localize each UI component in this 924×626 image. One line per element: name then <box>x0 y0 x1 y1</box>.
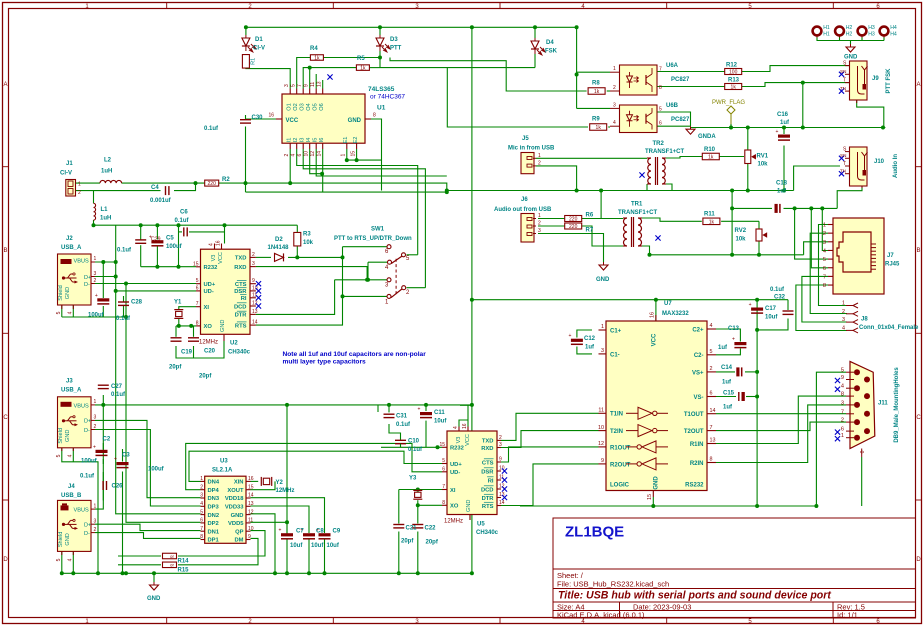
svg-text:0.001uf: 0.001uf <box>150 198 172 204</box>
svg-text:1k: 1k <box>314 56 320 62</box>
svg-text:XOUT: XOUT <box>227 488 244 494</box>
svg-text:1: 1 <box>200 476 203 482</box>
svg-text:3: 3 <box>841 400 844 406</box>
svg-text:CH340c: CH340c <box>476 530 499 536</box>
svg-text:1: 1 <box>823 223 826 229</box>
svg-text:3: 3 <box>94 519 97 525</box>
svg-text:DP4: DP4 <box>208 488 220 494</box>
svg-text:0.1uf: 0.1uf <box>396 422 411 428</box>
svg-text:J10: J10 <box>874 159 885 165</box>
svg-text:12: 12 <box>248 509 254 515</box>
svg-text:+: + <box>114 457 117 463</box>
svg-text:T: T <box>843 161 846 167</box>
svg-text:0.1uf: 0.1uf <box>175 218 190 224</box>
svg-text:T1IN: T1IN <box>610 412 623 418</box>
svg-text:R14: R14 <box>178 559 190 565</box>
svg-text:1: 1 <box>94 256 97 262</box>
svg-text:D+: D+ <box>84 275 91 281</box>
svg-text:U5: U5 <box>477 522 485 528</box>
svg-text:+: + <box>568 333 571 339</box>
svg-text:DP3: DP3 <box>208 505 220 511</box>
svg-text:+: + <box>279 528 282 534</box>
svg-text:XO: XO <box>450 504 459 510</box>
svg-text:16: 16 <box>268 113 274 119</box>
svg-text:3: 3 <box>538 228 541 234</box>
svg-text:VCC: VCC <box>218 252 224 264</box>
svg-text:3: 3 <box>284 84 290 87</box>
svg-text:C12: C12 <box>584 336 596 342</box>
svg-text:J8: J8 <box>861 317 868 323</box>
svg-text:C27: C27 <box>111 384 123 390</box>
svg-text:R8: R8 <box>592 81 600 87</box>
svg-text:GND: GND <box>231 513 244 519</box>
svg-text:5: 5 <box>841 368 844 374</box>
svg-text:8: 8 <box>659 85 662 91</box>
svg-text:1k: 1k <box>360 66 366 72</box>
svg-text:100uf: 100uf <box>166 244 183 250</box>
svg-text:20pf: 20pf <box>199 374 212 380</box>
svg-text:C20: C20 <box>204 349 216 355</box>
svg-text:3: 3 <box>252 261 255 267</box>
svg-text:DN1: DN1 <box>208 529 220 535</box>
svg-text:12: 12 <box>252 301 258 307</box>
svg-text:8: 8 <box>200 534 203 540</box>
svg-text:10: 10 <box>252 285 258 291</box>
svg-text:10: 10 <box>248 526 254 532</box>
svg-text:DB9_Male_MountingHoles: DB9_Male_MountingHoles <box>894 367 900 443</box>
svg-text:16: 16 <box>650 312 656 318</box>
svg-text:DN3: DN3 <box>208 496 220 502</box>
svg-text:C: C <box>3 415 8 421</box>
svg-text:DTR: DTR <box>482 496 495 502</box>
svg-text:1k: 1k <box>709 219 715 225</box>
svg-text:8: 8 <box>373 113 376 119</box>
svg-text:VBUS: VBUS <box>74 259 90 265</box>
svg-text:USB_B: USB_B <box>61 493 82 499</box>
svg-text:Y2: Y2 <box>276 480 284 486</box>
svg-text:1k: 1k <box>708 155 714 161</box>
svg-text:13: 13 <box>710 438 716 444</box>
svg-text:I6: I6 <box>319 138 325 143</box>
svg-text:0.1uf: 0.1uf <box>116 316 131 322</box>
svg-text:5: 5 <box>56 558 62 561</box>
svg-text:8: 8 <box>442 500 445 506</box>
svg-text:14: 14 <box>499 500 505 506</box>
svg-text:MAX3232: MAX3232 <box>662 311 689 317</box>
svg-text:H2: H2 <box>846 25 853 31</box>
svg-text:DCD: DCD <box>481 487 494 493</box>
svg-text:C3: C3 <box>122 453 130 459</box>
svg-text:DN2: DN2 <box>208 513 220 519</box>
svg-text:14: 14 <box>317 151 323 157</box>
svg-text:DN4: DN4 <box>208 480 220 486</box>
svg-text:R232: R232 <box>204 265 218 271</box>
svg-text:GND: GND <box>348 118 362 124</box>
svg-text:U7: U7 <box>664 301 672 307</box>
svg-text:Id: 1/1: Id: 1/1 <box>837 610 858 619</box>
svg-text:U2: U2 <box>230 341 238 347</box>
svg-text:RV2: RV2 <box>735 228 747 234</box>
svg-text:10: 10 <box>304 151 310 157</box>
svg-text:1k: 1k <box>594 89 600 95</box>
svg-text:R2IN: R2IN <box>690 461 704 467</box>
svg-text:1k: 1k <box>731 85 737 91</box>
svg-text:GND: GND <box>65 533 71 545</box>
svg-text:6: 6 <box>659 121 662 127</box>
svg-text:15: 15 <box>439 442 445 448</box>
svg-text:9: 9 <box>248 534 251 540</box>
svg-text:VBUS: VBUS <box>74 403 90 409</box>
svg-text:USB_A: USB_A <box>61 245 82 251</box>
svg-text:1uH: 1uH <box>100 216 111 222</box>
svg-text:RV1: RV1 <box>757 154 769 160</box>
svg-text:Title: USB hub with serial por: Title: USB hub with serial ports and sou… <box>558 590 831 602</box>
svg-text:1: 1 <box>94 503 97 509</box>
svg-text:11: 11 <box>598 408 604 414</box>
svg-text:O1: O1 <box>286 103 292 110</box>
svg-text:10k: 10k <box>758 162 769 168</box>
svg-text:Y3: Y3 <box>409 476 417 482</box>
svg-text:+: + <box>749 302 752 308</box>
svg-text:RXD: RXD <box>481 446 493 452</box>
svg-text:J9: J9 <box>872 76 879 82</box>
svg-text:R10: R10 <box>704 147 716 153</box>
svg-text:1: 1 <box>842 301 845 307</box>
svg-text:5: 5 <box>823 257 826 263</box>
svg-text:Mic in from USB: Mic in from USB <box>508 146 555 152</box>
svg-text:D1: D1 <box>255 37 263 43</box>
svg-text:R1IN: R1IN <box>690 442 704 448</box>
svg-text:A: A <box>916 82 920 88</box>
svg-text:5: 5 <box>56 454 62 457</box>
svg-text:0: 0 <box>860 450 866 453</box>
svg-text:C2+: C2+ <box>692 327 704 333</box>
svg-text:C14: C14 <box>721 365 733 371</box>
svg-text:VDD18: VDD18 <box>225 496 244 502</box>
svg-text:H3: H3 <box>868 25 875 31</box>
svg-text:FSK: FSK <box>545 49 558 55</box>
svg-text:O3: O3 <box>299 103 305 110</box>
svg-text:7: 7 <box>196 301 199 307</box>
svg-text:1: 1 <box>94 399 97 405</box>
svg-text:VBUS: VBUS <box>74 508 90 514</box>
svg-text:6: 6 <box>200 518 203 524</box>
svg-text:3: 3 <box>94 415 97 421</box>
svg-text:C31: C31 <box>396 414 408 420</box>
svg-text:5: 5 <box>442 458 445 464</box>
svg-text:5: 5 <box>56 311 62 314</box>
svg-text:R7: R7 <box>586 228 594 234</box>
svg-text:4: 4 <box>291 154 297 157</box>
svg-text:or 74HC367: or 74HC367 <box>370 94 405 101</box>
svg-text:7: 7 <box>297 84 303 87</box>
svg-text:D+: D+ <box>84 419 91 425</box>
svg-text:D+: D+ <box>84 523 91 529</box>
svg-text:16: 16 <box>215 240 221 246</box>
svg-text:V3: V3 <box>211 255 217 262</box>
svg-text:1uf: 1uf <box>585 345 595 351</box>
svg-text:I2: I2 <box>293 138 299 143</box>
svg-text:R11: R11 <box>704 212 715 218</box>
svg-text:20pf: 20pf <box>169 365 182 371</box>
svg-text:PTT FSK: PTT FSK <box>886 68 892 94</box>
svg-text:T2IN: T2IN <box>610 429 623 435</box>
svg-text:GND: GND <box>220 320 226 332</box>
svg-text:10uf: 10uf <box>327 543 340 549</box>
svg-text:GND: GND <box>654 476 660 490</box>
svg-text:R5: R5 <box>357 56 365 62</box>
svg-text:TN: TN <box>840 86 846 91</box>
svg-text:CH340c: CH340c <box>228 350 251 356</box>
svg-text:9: 9 <box>304 84 310 87</box>
svg-text:8: 8 <box>710 457 713 463</box>
svg-text:TRANSF1+CT: TRANSF1+CT <box>618 210 658 216</box>
svg-text:VDD33: VDD33 <box>225 505 244 511</box>
svg-text:C29: C29 <box>151 237 161 243</box>
svg-text:H4: H4 <box>890 32 897 38</box>
svg-text:DP1: DP1 <box>208 538 220 544</box>
svg-text:T1OUT: T1OUT <box>684 412 704 418</box>
svg-text:J7: J7 <box>887 253 894 259</box>
svg-text:R3: R3 <box>303 232 311 238</box>
svg-text:Shield: Shield <box>58 428 64 444</box>
svg-text:D4: D4 <box>546 40 554 46</box>
svg-text:2: 2 <box>252 252 255 258</box>
svg-text:RI: RI <box>241 296 247 302</box>
svg-text:4: 4 <box>200 501 203 507</box>
svg-text:Audio In: Audio In <box>893 154 899 178</box>
svg-text:B: B <box>3 248 7 254</box>
svg-text:2: 2 <box>94 424 97 430</box>
svg-text:RTS: RTS <box>235 323 247 329</box>
svg-text:10uf: 10uf <box>290 543 303 549</box>
svg-text:D-: D- <box>84 282 90 288</box>
svg-text:1: 1 <box>538 213 541 219</box>
svg-text:E1: E1 <box>343 137 349 144</box>
svg-text:UD-: UD- <box>204 289 214 295</box>
svg-text:1: 1 <box>613 66 616 72</box>
svg-text:L1: L1 <box>101 207 109 213</box>
svg-text:13: 13 <box>317 81 323 87</box>
svg-text:2: 2 <box>284 154 290 157</box>
svg-text:4: 4 <box>453 426 459 429</box>
svg-text:XIN: XIN <box>234 480 244 486</box>
svg-text:DM: DM <box>234 538 243 544</box>
svg-text:R1OUT: R1OUT <box>610 445 631 451</box>
svg-text:9: 9 <box>252 278 255 284</box>
svg-text:CI-V: CI-V <box>253 46 265 52</box>
svg-text:ZL1BQE: ZL1BQE <box>565 524 624 541</box>
svg-text:GND: GND <box>466 500 472 512</box>
svg-text:7: 7 <box>442 484 445 490</box>
svg-text:R12: R12 <box>726 63 738 69</box>
svg-text:1: 1 <box>341 154 347 157</box>
svg-text:13: 13 <box>248 501 254 507</box>
svg-text:C7: C7 <box>296 529 304 535</box>
svg-text:0.1uf: 0.1uf <box>111 392 126 398</box>
svg-text:1uH: 1uH <box>101 169 112 175</box>
svg-text:D: D <box>3 557 8 563</box>
svg-text:16: 16 <box>248 476 254 482</box>
svg-text:DSR: DSR <box>481 469 494 475</box>
svg-text:5: 5 <box>710 349 713 355</box>
svg-text:9: 9 <box>841 375 844 381</box>
svg-text:1uf: 1uf <box>780 120 790 126</box>
svg-text:T2OUT: T2OUT <box>684 429 704 435</box>
svg-text:R232: R232 <box>450 446 464 452</box>
svg-text:Shield: Shield <box>58 285 64 301</box>
svg-text:DCD: DCD <box>234 304 247 310</box>
svg-text:12MHz: 12MHz <box>199 340 218 346</box>
svg-text:UD-: UD- <box>450 470 460 476</box>
svg-text:5: 5 <box>196 278 199 284</box>
svg-text:Audio out from USB: Audio out from USB <box>494 207 552 213</box>
svg-text:XO: XO <box>204 324 213 330</box>
svg-text:2: 2 <box>842 309 845 315</box>
svg-text:VS-: VS- <box>693 395 703 401</box>
svg-text:10uf: 10uf <box>765 315 778 321</box>
svg-text:J1: J1 <box>66 161 73 167</box>
svg-text:USB_A: USB_A <box>61 388 82 394</box>
svg-text:C1-: C1- <box>610 352 620 358</box>
svg-text:9: 9 <box>601 458 604 464</box>
svg-text:U6A: U6A <box>666 63 679 69</box>
svg-text:1N4148: 1N4148 <box>268 245 290 251</box>
svg-text:7: 7 <box>710 425 713 431</box>
svg-text:10k: 10k <box>303 240 314 246</box>
svg-text:2: 2 <box>94 278 97 284</box>
svg-text:T: T <box>843 78 846 84</box>
svg-text:O2: O2 <box>293 103 299 110</box>
svg-text:15: 15 <box>248 484 254 490</box>
svg-text:6: 6 <box>841 427 844 433</box>
svg-text:1: 1 <box>841 433 844 439</box>
svg-text:4: 4 <box>208 243 214 246</box>
svg-text:74LS365: 74LS365 <box>368 86 395 93</box>
svg-text:6: 6 <box>442 466 445 472</box>
svg-text:XI: XI <box>204 305 210 311</box>
svg-text:SW1: SW1 <box>371 227 385 233</box>
svg-text:C22: C22 <box>425 526 437 532</box>
svg-text:14: 14 <box>252 320 258 326</box>
svg-text:6: 6 <box>297 154 303 157</box>
svg-text:220: 220 <box>569 224 578 230</box>
svg-text:PTT to RTS_UP/DTR_Down: PTT to RTS_UP/DTR_Down <box>334 236 412 242</box>
svg-text:J2: J2 <box>66 236 73 242</box>
svg-text:TR1: TR1 <box>631 202 643 208</box>
svg-text:15: 15 <box>647 494 653 500</box>
svg-text:7: 7 <box>841 409 844 415</box>
svg-text:1: 1 <box>538 153 541 159</box>
svg-text:2: 2 <box>710 366 713 372</box>
svg-text:4: 4 <box>68 558 74 561</box>
svg-text:10: 10 <box>598 425 604 431</box>
svg-text:E2: E2 <box>353 137 359 144</box>
svg-text:20pf: 20pf <box>426 540 439 546</box>
svg-text:C32: C32 <box>774 295 786 301</box>
svg-text:J11: J11 <box>878 401 888 407</box>
svg-text:+: + <box>732 337 735 343</box>
svg-text:RJ45: RJ45 <box>885 262 900 268</box>
svg-text:C8: C8 <box>316 529 324 535</box>
svg-text:100uf: 100uf <box>148 467 165 473</box>
svg-text:GND: GND <box>65 287 71 299</box>
svg-text:C11: C11 <box>434 410 445 416</box>
svg-text:1: 1 <box>601 324 604 330</box>
svg-text:CTS: CTS <box>482 460 494 466</box>
svg-text:D: D <box>916 557 921 563</box>
svg-text:R4: R4 <box>310 46 318 52</box>
svg-text:SL2.1A: SL2.1A <box>212 468 233 474</box>
svg-text:O6: O6 <box>319 103 325 110</box>
svg-text:2: 2 <box>538 221 541 227</box>
svg-text:0.1uf: 0.1uf <box>408 447 423 453</box>
svg-text:220: 220 <box>208 181 217 187</box>
svg-text:A: A <box>3 82 7 88</box>
svg-text:C18: C18 <box>776 181 788 187</box>
svg-text:RI: RI <box>488 478 494 484</box>
svg-text:R13: R13 <box>728 78 740 84</box>
svg-text:3: 3 <box>94 271 97 277</box>
svg-text:4: 4 <box>613 120 616 126</box>
svg-text:C19: C19 <box>181 350 193 356</box>
svg-text:GNDA: GNDA <box>698 134 716 140</box>
svg-text:U1: U1 <box>377 105 386 112</box>
svg-text:3: 3 <box>613 102 616 108</box>
svg-text:J4: J4 <box>68 484 75 490</box>
svg-text:4: 4 <box>841 384 844 390</box>
svg-text:I5: I5 <box>312 138 318 143</box>
svg-text:4: 4 <box>710 323 713 329</box>
svg-text:10uf: 10uf <box>311 543 324 549</box>
svg-text:XI: XI <box>450 488 456 494</box>
svg-text:C10: C10 <box>408 439 420 445</box>
svg-text:Conn_01x04_Female: Conn_01x04_Female <box>859 325 919 331</box>
svg-text:LOGIC: LOGIC <box>610 483 630 489</box>
svg-text:10k: 10k <box>736 237 747 243</box>
svg-text:0.1uf: 0.1uf <box>117 248 132 254</box>
svg-text:C28: C28 <box>131 300 143 306</box>
svg-text:R2: R2 <box>222 177 230 183</box>
svg-text:H1: H1 <box>823 32 830 38</box>
svg-text:QP: QP <box>235 529 244 535</box>
svg-text:UD+: UD+ <box>204 282 216 288</box>
svg-text:GND: GND <box>147 596 161 602</box>
svg-text:1k: 1k <box>596 125 602 131</box>
svg-text:100: 100 <box>729 70 738 76</box>
svg-text:1uf: 1uf <box>722 380 732 386</box>
svg-text:J5: J5 <box>522 136 529 142</box>
svg-text:4: 4 <box>68 311 74 314</box>
svg-text:4: 4 <box>823 248 826 254</box>
svg-text:C6: C6 <box>180 210 188 216</box>
svg-text:J6: J6 <box>521 197 528 203</box>
svg-text:14: 14 <box>710 408 716 414</box>
svg-text:0.1uf: 0.1uf <box>770 287 785 293</box>
svg-text:U6B: U6B <box>666 103 679 109</box>
svg-text:2: 2 <box>499 435 502 441</box>
svg-text:TXD: TXD <box>482 439 494 445</box>
svg-text:CI-V: CI-V <box>60 171 72 177</box>
svg-text:7: 7 <box>659 67 662 73</box>
svg-text:1: 1 <box>78 182 81 188</box>
svg-text:+: + <box>95 293 98 299</box>
svg-text:220: 220 <box>569 217 578 223</box>
svg-text:+: + <box>93 444 96 450</box>
svg-text:7: 7 <box>200 526 203 532</box>
svg-text:2: 2 <box>613 85 616 91</box>
svg-text:R15: R15 <box>178 567 190 573</box>
